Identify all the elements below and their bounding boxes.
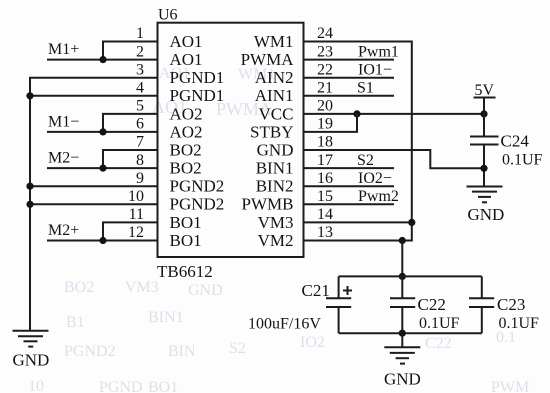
- svg-text:M1−: M1−: [48, 113, 79, 130]
- junction VCC-STBY: [353, 110, 360, 117]
- svg-text:M2+: M2+: [48, 222, 79, 239]
- svg-text:BIN: BIN: [168, 343, 196, 360]
- svg-text:GND: GND: [257, 140, 294, 159]
- svg-text:PGND2: PGND2: [170, 177, 225, 196]
- svg-text:13: 13: [317, 224, 333, 241]
- junction VCC-5V: [480, 110, 487, 117]
- svg-text:M1+: M1+: [48, 41, 79, 58]
- svg-text:AO1: AO1: [170, 50, 203, 69]
- wire pin 19 STBY: [304, 114, 358, 132]
- junction VM2 rail: [399, 237, 406, 244]
- wire cap bank top rail: [339, 275, 482, 277]
- svg-text:0.1UF: 0.1UF: [499, 315, 540, 332]
- wire pin 4: [30, 95, 158, 97]
- svg-text:PGND1: PGND1: [170, 86, 225, 105]
- svg-text:STBY: STBY: [250, 122, 293, 141]
- wire pin 3 to ground bus: [30, 78, 158, 331]
- capacitor C24: [470, 137, 499, 187]
- wire pin 9: [30, 185, 158, 187]
- capacitor C22: [390, 276, 415, 333]
- svg-text:S2: S2: [357, 152, 374, 169]
- svg-text:BO1: BO1: [148, 379, 178, 393]
- svg-text:18: 18: [317, 134, 333, 151]
- svg-text:U6: U6: [158, 6, 178, 23]
- svg-text:17: 17: [317, 152, 333, 169]
- wire pin 1 stub: [103, 42, 158, 60]
- svg-text:PGND: PGND: [99, 379, 143, 393]
- wire VM rail down to cap bank: [401, 241, 403, 277]
- wire pin 10: [30, 203, 158, 205]
- svg-text:Pwm2: Pwm2: [358, 188, 399, 205]
- svg-text:23: 23: [317, 43, 333, 60]
- svg-text:PWMA: PWMA: [241, 50, 295, 69]
- svg-text:VCC: VCC: [259, 104, 294, 123]
- svg-text:VM2: VM2: [258, 231, 294, 250]
- svg-text:AIN1: AIN1: [255, 86, 294, 105]
- svg-text:GND: GND: [384, 369, 421, 388]
- svg-text:PGND2: PGND2: [64, 343, 116, 360]
- junction M1+: [99, 56, 106, 63]
- svg-text:2: 2: [136, 43, 144, 60]
- wire pin 7 stub: [103, 150, 158, 168]
- svg-text:C22: C22: [418, 295, 446, 314]
- svg-text:BIN1: BIN1: [256, 159, 294, 178]
- svg-text:22: 22: [317, 61, 333, 78]
- svg-text:GND: GND: [468, 205, 505, 224]
- junction cap bank bottom: [399, 330, 406, 337]
- svg-text:3: 3: [136, 61, 144, 78]
- svg-text:8: 8: [136, 152, 144, 169]
- svg-text:IO1−: IO1−: [358, 62, 392, 79]
- svg-text:BO1: BO1: [170, 231, 202, 250]
- svg-text:BO1: BO1: [170, 213, 202, 232]
- svg-text:GND: GND: [13, 350, 50, 369]
- svg-text:1: 1: [136, 25, 144, 42]
- svg-text:AO2: AO2: [170, 104, 203, 123]
- svg-text:Pwm1: Pwm1: [358, 43, 399, 60]
- svg-text:16: 16: [317, 170, 333, 187]
- svg-text:21: 21: [317, 80, 333, 97]
- plus mark C21: [343, 286, 352, 295]
- svg-text:5V: 5V: [475, 82, 495, 99]
- wire pin 17 S2: [304, 167, 395, 169]
- wire pin 16 IO2-: [304, 185, 395, 187]
- svg-text:GND: GND: [188, 282, 223, 299]
- svg-text:7: 7: [136, 134, 144, 151]
- wire pin 18 GND to C24: [304, 150, 485, 168]
- svg-text:S2: S2: [229, 340, 246, 357]
- svg-text:IO2−: IO2−: [358, 170, 392, 187]
- svg-text:5: 5: [136, 98, 144, 115]
- svg-text:10: 10: [128, 188, 144, 205]
- junction bus pin 10: [26, 201, 33, 208]
- svg-text:M2−: M2−: [48, 150, 79, 167]
- svg-text:B1: B1: [66, 314, 85, 331]
- svg-text:24: 24: [317, 25, 333, 42]
- svg-text:WM1: WM1: [254, 32, 294, 51]
- svg-text:BO2: BO2: [170, 140, 202, 159]
- svg-text:BIN2: BIN2: [256, 177, 294, 196]
- svg-text:PWM: PWM: [491, 379, 529, 393]
- svg-text:TB6612: TB6612: [157, 262, 213, 281]
- wire pin 23 Pwm1: [304, 59, 395, 61]
- svg-text:PGND2: PGND2: [170, 195, 225, 214]
- junction M1-: [99, 128, 106, 135]
- wire M1- to pin 6: [47, 131, 158, 133]
- svg-text:AO2: AO2: [170, 122, 203, 141]
- wire pin 11 stub: [103, 222, 158, 240]
- svg-text:PWMB: PWMB: [242, 195, 294, 214]
- capacitor C23: [469, 276, 494, 333]
- svg-text:C24: C24: [501, 131, 530, 150]
- wire cap bank bottom rail: [339, 332, 482, 334]
- wire pin 15 Pwm2: [304, 203, 395, 205]
- svg-text:C22: C22: [425, 335, 452, 352]
- svg-text:12: 12: [128, 224, 144, 241]
- power symbol 5V: [474, 82, 496, 137]
- IC U6 TB6612 body: [158, 23, 304, 257]
- svg-text:11: 11: [129, 206, 144, 223]
- svg-text:PGND1: PGND1: [170, 68, 225, 87]
- wire M2- to pin 8: [47, 167, 158, 169]
- svg-text:14: 14: [317, 206, 333, 223]
- wire M2+ to pin 12: [47, 240, 158, 242]
- svg-text:VM3: VM3: [258, 213, 294, 232]
- wire pin 22 IO1-: [304, 77, 395, 79]
- wire pin 24 to VM rail: [304, 42, 412, 241]
- junction cap bank top: [399, 273, 406, 280]
- svg-text:4: 4: [136, 80, 144, 97]
- svg-text:BO2: BO2: [170, 159, 202, 178]
- svg-text:AO1: AO1: [170, 32, 203, 51]
- svg-text:20: 20: [317, 98, 333, 115]
- svg-text:19: 19: [317, 116, 333, 133]
- svg-text:0.1UF: 0.1UF: [502, 152, 543, 169]
- ground symbol bottom: [384, 333, 420, 363]
- svg-text:C21: C21: [302, 281, 330, 300]
- svg-text:6: 6: [136, 116, 144, 133]
- wire pin 20 VCC to 5V: [304, 113, 485, 115]
- svg-text:9: 9: [136, 170, 144, 187]
- ground symbol left: [13, 331, 49, 347]
- junction VM3 rail: [408, 219, 415, 226]
- junction C24 gnd: [480, 165, 487, 172]
- junction bus pin 4: [26, 92, 33, 99]
- svg-text:15: 15: [317, 188, 333, 205]
- junction M2-: [99, 165, 106, 172]
- svg-text:IO2: IO2: [300, 334, 325, 351]
- svg-text:10: 10: [28, 378, 44, 393]
- svg-text:AIN2: AIN2: [255, 68, 294, 87]
- ground symbol top right: [467, 187, 503, 203]
- wire M1+ to pin 2: [47, 59, 158, 61]
- capacitor C21 electrolytic: [326, 276, 351, 333]
- svg-text:S1: S1: [357, 80, 374, 97]
- svg-text:BIN1: BIN1: [148, 309, 184, 326]
- wire pin 14 VM3: [304, 221, 412, 223]
- wire pin 21 S1: [304, 95, 395, 97]
- wire pin 5 stub: [103, 114, 158, 132]
- svg-text:100uF/16V: 100uF/16V: [248, 316, 321, 333]
- junction M2+: [99, 237, 106, 244]
- svg-text:VM3: VM3: [125, 279, 159, 296]
- svg-text:0.1UF: 0.1UF: [419, 315, 460, 332]
- junction bus pin 9: [26, 183, 33, 190]
- svg-text:BO2: BO2: [64, 279, 94, 296]
- svg-text:C23: C23: [497, 295, 525, 314]
- wire pin 13 VM2: [304, 240, 403, 242]
